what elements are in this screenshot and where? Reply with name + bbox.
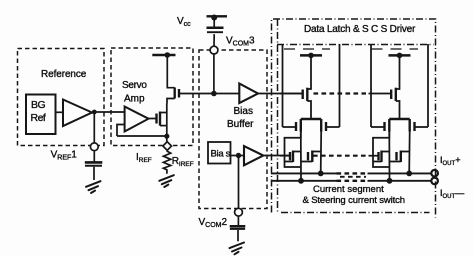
svg-text:Bias: Bias: [234, 106, 253, 117]
svg-text:Ref: Ref: [31, 112, 46, 124]
svg-text:Reference: Reference: [41, 69, 87, 80]
svg-text:Current segment: Current segment: [313, 184, 384, 195]
svg-text:Servo: Servo: [122, 80, 147, 91]
svg-text:Buffer: Buffer: [227, 119, 254, 130]
svg-text:Amp: Amp: [124, 94, 145, 105]
svg-text:& Steering current switch: & Steering current switch: [303, 195, 405, 206]
svg-text:BG: BG: [31, 99, 46, 111]
svg-text:Data Latch & S C S Driver: Data Latch & S C S Driver: [304, 24, 416, 35]
svg-text:Bia s: Bia s: [211, 149, 231, 160]
